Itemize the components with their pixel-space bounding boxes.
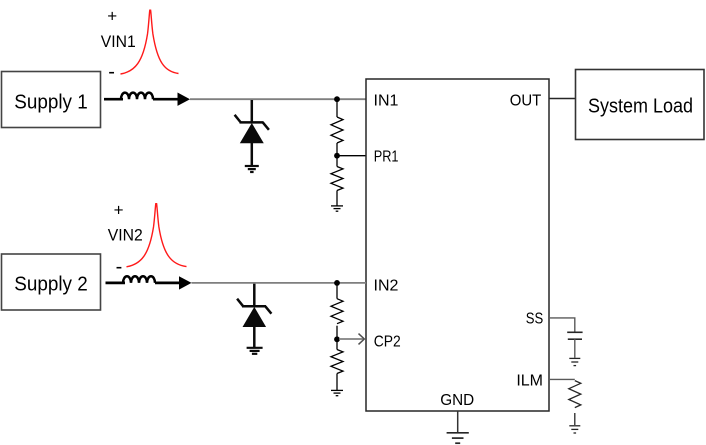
resistor R4 xyxy=(331,341,343,390)
svg-text:+: + xyxy=(107,6,117,25)
svg-text:-: - xyxy=(108,61,115,83)
junction node IN1 divider xyxy=(334,96,340,102)
resistor R3 xyxy=(331,284,343,324)
Supply 2 box xyxy=(2,254,101,310)
junction node CP2 xyxy=(334,326,340,342)
wire SS pin to capacitor C1 xyxy=(549,318,575,332)
svg-text:System Load: System Load xyxy=(588,96,693,118)
resistor R1 xyxy=(331,100,343,143)
current arrow into IN1 xyxy=(153,93,190,106)
ground below D1 xyxy=(245,166,259,172)
System Load box xyxy=(576,70,705,140)
svg-text:SS: SS xyxy=(526,311,544,328)
ground below R4 xyxy=(331,390,343,395)
junction node PR1 xyxy=(334,143,340,159)
inductor L1 xyxy=(121,93,153,100)
resistor R2 xyxy=(331,158,343,206)
surge waveform VIN1 xyxy=(121,10,179,74)
wire ILM pin to resistor R5 xyxy=(549,378,575,380)
ground below C1 xyxy=(569,358,580,365)
resistor R5 xyxy=(569,381,581,425)
svg-text:VIN2: VIN2 xyxy=(108,226,143,245)
ground below R2 xyxy=(331,206,343,211)
wire OUT to System Load xyxy=(549,98,576,100)
svg-text:Supply 1: Supply 1 xyxy=(14,92,88,114)
svg-text:IN2: IN2 xyxy=(374,278,399,295)
ground below R5 xyxy=(569,426,580,433)
inductor L2 xyxy=(123,276,155,283)
svg-text:VIN1: VIN1 xyxy=(101,32,136,51)
Supply 1 box xyxy=(2,72,101,128)
ground below GND pin xyxy=(447,433,469,443)
svg-text:IN1: IN1 xyxy=(374,93,399,110)
wire to PR1 pin xyxy=(337,155,366,157)
svg-text:ILM: ILM xyxy=(516,373,543,390)
wire to CP2 pin with arrowhead xyxy=(339,334,364,345)
junction node IN2 divider xyxy=(334,280,340,286)
capacitor C1 xyxy=(567,332,582,339)
wire C1 to ground xyxy=(574,339,576,358)
svg-text:-: - xyxy=(116,256,123,278)
surge waveform VIN2 xyxy=(127,204,187,267)
current arrow into IN2 xyxy=(155,276,192,289)
TVS diode D2 xyxy=(237,284,271,347)
svg-text:+: + xyxy=(114,200,124,219)
TVS diode D1 xyxy=(235,100,269,166)
svg-text:GND: GND xyxy=(440,392,474,409)
wire Supply 1 to inductor L1 xyxy=(104,98,123,101)
svg-text:PR1: PR1 xyxy=(374,149,399,166)
IC U1 box xyxy=(366,79,549,411)
wire GND pin to ground xyxy=(457,411,459,432)
wire Supply 2 to inductor L2 xyxy=(106,282,126,285)
wire L1 to IN1 pin xyxy=(190,98,366,100)
svg-text:OUT: OUT xyxy=(510,93,542,110)
wire L2 to IN2 pin xyxy=(192,282,367,284)
ground below D2 xyxy=(247,348,263,354)
svg-text:Supply 2: Supply 2 xyxy=(14,274,88,296)
svg-text:CP2: CP2 xyxy=(374,334,401,351)
